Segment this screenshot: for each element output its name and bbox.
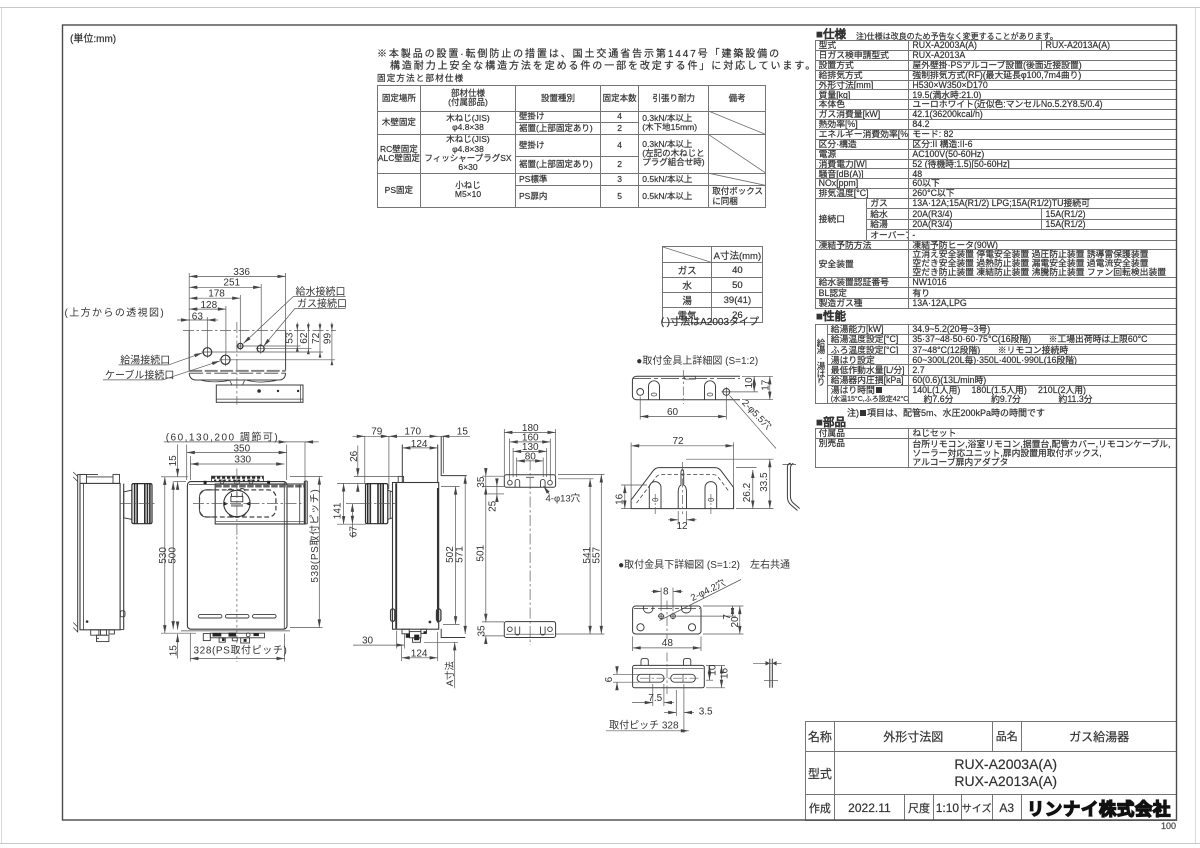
top view centerlines: [183, 322, 336, 405]
dim 502: [441, 487, 460, 625]
top view wall bracket: [216, 385, 303, 402]
svg-text:●取付金具下詳細図 (S=1:2) 左右共通: ●取付金具下詳細図 (S=1:2) 左右共通: [618, 558, 790, 571]
title block: [805, 721, 1178, 821]
sheet number: [1161, 821, 1176, 831]
svg-text:15: 15: [169, 645, 180, 657]
svg-text:(上方からの透視図): (上方からの透視図): [65, 306, 166, 319]
performance vertical label: [816, 340, 827, 387]
page top hairline: [0, 7, 1200, 9]
right side view dim 141: [337, 483, 366, 524]
back view top bracket: [504, 475, 555, 487]
parts table: [815, 428, 1178, 468]
svg-text:124: 124: [411, 439, 428, 450]
right side view fan ribbed body: [366, 484, 388, 524]
back view bottom bracket: [504, 622, 555, 638]
right side view fan centerline: [361, 503, 398, 505]
dim 500: [172, 482, 174, 630]
page right faint edge: [1195, 7, 1197, 843]
svg-text:124: 124: [411, 648, 428, 659]
lower bracket dim 8: [652, 588, 683, 612]
upper bracket dim 60: [640, 397, 726, 420]
svg-text:15: 15: [457, 427, 469, 438]
front view top mounting bolts: [204, 481, 271, 485]
left side view bottom stubs: [91, 630, 115, 642]
fan circle: [224, 488, 250, 517]
parts header: [816, 417, 846, 430]
A-dimension table: [662, 246, 763, 323]
svg-text:63: 63: [192, 311, 204, 322]
svg-text:501: 501: [475, 544, 486, 561]
left side view fan ribbed body: [132, 484, 152, 524]
lower bracket side profile: [753, 659, 782, 688]
lower bracket dim 6: [613, 667, 640, 691]
svg-text:328(PS取付ピッチ): 328(PS取付ピッチ): [194, 644, 288, 657]
svg-text:26: 26: [349, 450, 360, 462]
svg-text:17: 17: [760, 379, 771, 391]
svg-text:6: 6: [604, 676, 615, 682]
left side view fan centerline: [120, 503, 156, 505]
back view 4-phi13 label: [544, 486, 550, 495]
front view bottom plate line: [181, 630, 290, 632]
fixing table caption: [377, 74, 464, 84]
front view centerlines: [193, 469, 302, 663]
svg-text:48: 48: [662, 638, 674, 649]
svg-text:20: 20: [730, 616, 741, 628]
trapezoid bracket front view: [631, 468, 734, 509]
performance table: [815, 324, 1178, 404]
fixing method table: [377, 85, 766, 208]
svg-text:3.5: 3.5: [699, 706, 713, 717]
lower bracket 2-phi4.2 label: [660, 580, 742, 621]
upper bracket dims 10 17: [731, 376, 773, 399]
left side view wall: [73, 472, 78, 632]
right side view fan flange: [388, 490, 393, 519]
svg-text:35: 35: [476, 476, 487, 488]
svg-text:500: 500: [167, 547, 178, 564]
svg-text:79: 79: [371, 427, 383, 438]
performance note: [847, 408, 1045, 418]
dim 571: [464, 476, 466, 634]
top view label: [65, 306, 166, 319]
spec table: [815, 40, 1178, 309]
svg-text:●取付金具上詳細図 (S=1:2): ●取付金具上詳細図 (S=1:2): [636, 354, 758, 367]
lower bracket centerline: [666, 601, 668, 640]
lower bracket plan view: [633, 606, 701, 634]
trapezoid dim 16: [621, 485, 647, 509]
upper bracket strip centerline: [682, 370, 684, 404]
svg-text:557: 557: [592, 546, 603, 563]
svg-text:33.5: 33.5: [759, 472, 770, 492]
right side view dim 124 bottom: [402, 632, 438, 661]
left side view body: [80, 483, 125, 629]
right side view top dims 79 170 15: [353, 436, 471, 489]
dim 15 top: [174, 445, 189, 491]
svg-text:16: 16: [614, 493, 625, 505]
installation note line2: [390, 61, 817, 72]
dim 328 PS pitch: [190, 634, 284, 662]
lower bracket dim 7.5: [632, 684, 674, 706]
svg-text:99: 99: [323, 333, 334, 345]
dim (60,130,200 adjustable): [164, 442, 319, 484]
svg-text:26.2: 26.2: [742, 482, 753, 502]
fan housing rounded rect (hidden dashed): [200, 490, 276, 517]
page bottom hairline: [0, 843, 1200, 845]
right side view dim A: [424, 642, 458, 688]
top view body outline: [189, 331, 285, 386]
svg-text:67: 67: [348, 526, 359, 538]
front view bottom connections: [203, 633, 264, 643]
right side view dim 26: [354, 446, 399, 492]
svg-text:178: 178: [208, 289, 225, 300]
right side view bottom connections: [402, 629, 427, 642]
right side view body: [391, 476, 441, 629]
front view casing body: [187, 482, 287, 630]
svg-text:25: 25: [488, 500, 499, 512]
svg-text:53: 53: [285, 332, 296, 344]
lower bracket dims 10 16: [706, 665, 725, 687]
svg-text:30: 30: [362, 636, 374, 647]
svg-text:538(PS取付ピッチ): 538(PS取付ピッチ): [308, 489, 321, 583]
right side view top duct: [402, 445, 437, 483]
front view vent slots: [198, 615, 276, 618]
left side view fan flange: [124, 490, 132, 519]
svg-text:80: 80: [525, 451, 537, 462]
spec header: [816, 29, 846, 42]
exhaust slide panel: [215, 481, 307, 524]
dim 530: [161, 477, 196, 633]
connection circles: hot water C1, cable C2, cold water C3, gas C4: [203, 343, 264, 364]
svg-text:60: 60: [667, 407, 679, 418]
back view centerline: [529, 460, 531, 646]
trapezoid side profile: [783, 463, 800, 510]
installation note line1: [377, 49, 781, 60]
right side view wall profile: [441, 437, 467, 638]
trapezoid dim 12: [668, 511, 697, 525]
svg-text:35: 35: [477, 625, 488, 637]
dim 15 bottom: [177, 622, 179, 659]
A-dimension caption: [661, 317, 759, 328]
svg-text:350: 350: [234, 443, 251, 454]
dims 541 557: [556, 474, 605, 634]
svg-text:8: 8: [663, 587, 669, 598]
dim 330: [190, 456, 284, 480]
upper bracket strip view: [632, 376, 740, 399]
svg-text:62: 62: [299, 332, 310, 344]
svg-text:4-φ13穴: 4-φ13穴: [546, 494, 581, 505]
lower bracket dim 48: [633, 637, 701, 652]
svg-text:(60,130,200 調節可): (60,130,200 調節可): [166, 430, 280, 443]
dim 501 and 35/25/35: [482, 468, 504, 644]
dim 350: [187, 445, 287, 481]
svg-text:A寸法: A寸法: [444, 661, 456, 687]
svg-text:170: 170: [404, 427, 421, 438]
top view vertical dims 53 62 72 99: [297, 323, 332, 365]
svg-text:571: 571: [454, 546, 465, 563]
back view dims 180 160 130 80: [504, 429, 555, 480]
performance header: [816, 311, 846, 324]
svg-text:330: 330: [234, 454, 251, 465]
trapezoid dims 26.2 33.5: [686, 459, 774, 508]
svg-text:15: 15: [168, 455, 179, 467]
svg-text:128: 128: [201, 300, 218, 311]
svg-text:16: 16: [720, 667, 731, 679]
trapezoid centerlines: [655, 462, 711, 514]
svg-text:10: 10: [707, 664, 718, 676]
lower bracket dims 7 20: [677, 606, 744, 634]
svg-text:10: 10: [744, 377, 755, 389]
left side view top bracket tabs: [78, 474, 120, 483]
svg-text:2-φ4.2穴: 2-φ4.2穴: [689, 577, 728, 603]
diagonal slashes in table cells: [663, 111, 766, 262]
dim 538 PS pitch: [290, 477, 323, 628]
connection labels with leaders: [105, 285, 347, 382]
trapezoid dim 72: [631, 443, 734, 503]
svg-text:72: 72: [673, 436, 685, 447]
lower bracket mounting pitch label: [606, 730, 689, 732]
svg-text:取付ピッチ 328: 取付ピッチ 328: [609, 719, 679, 732]
right side view dim 124 top: [402, 447, 437, 449]
lower bracket bottom view: [633, 659, 705, 688]
right side view dim 30: [353, 631, 404, 649]
svg-text:72: 72: [311, 332, 322, 344]
lower bracket dim 3.5: [664, 684, 694, 733]
front view comb strip (top grille): [212, 476, 264, 485]
svg-text:7.5: 7.5: [648, 693, 662, 704]
svg-text:141: 141: [333, 502, 344, 519]
svg-text:12: 12: [677, 521, 689, 532]
svg-text:336: 336: [233, 267, 250, 278]
right side view dim 67: [346, 504, 361, 538]
top view horizontal dims 336 251 178 128 63: [177, 273, 286, 355]
fan section arrows: [224, 502, 251, 506]
page left faint edge: [1, 7, 3, 843]
upper bracket 2-phi5.5 label: [730, 395, 777, 448]
unit note: [70, 34, 116, 45]
svg-text:251: 251: [223, 278, 240, 289]
svg-text:2-φ5.5穴: 2-φ5.5穴: [739, 398, 773, 433]
leader lines from circles to right dims: [212, 346, 335, 360]
